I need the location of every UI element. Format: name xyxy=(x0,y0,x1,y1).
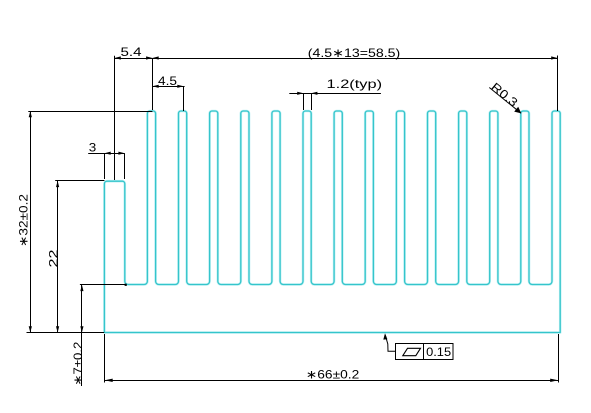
leader R0.3 line xyxy=(489,88,521,114)
dim *66: dimension line xyxy=(105,380,559,382)
arrows dim 1.2 outside xyxy=(297,92,303,95)
flatness parallelogram symbol xyxy=(403,348,421,355)
dim 5.4 and 58.5 chain: dimension line xyxy=(115,58,558,60)
feature control frame box xyxy=(396,344,454,360)
ext line fin6 left xyxy=(303,93,305,110)
svg-text:1.2(typ): 1.2(typ) xyxy=(327,77,383,91)
ext line fin6 right xyxy=(311,93,313,110)
heatsink extrusion profile outline halo xyxy=(104,111,560,333)
ext line top block top xyxy=(55,180,104,182)
arrows dim 22 xyxy=(56,181,59,187)
arrows dim 3 xyxy=(104,152,110,155)
dim 22: dimension line xyxy=(57,181,59,333)
dim 1.2(typ): dimension line xyxy=(289,93,381,95)
ext line left block center xyxy=(114,56,116,180)
ext line bottom shared xyxy=(27,332,105,334)
flatness leader line xyxy=(385,335,395,351)
frame divider xyxy=(423,344,425,360)
heatsink extrusion profile outline xyxy=(104,111,560,333)
svg-text:∗7±0.2: ∗7±0.2 xyxy=(71,341,85,385)
flatness leader arrow xyxy=(383,333,387,339)
arrows dim 7 xyxy=(80,285,83,291)
svg-text:(4.5∗13=58.5): (4.5∗13=58.5) xyxy=(308,46,401,60)
ext line top to fin1 xyxy=(28,111,152,113)
svg-text:5.4: 5.4 xyxy=(121,45,142,59)
arrows dim 5.4 xyxy=(115,56,121,59)
arrows dim 66 xyxy=(105,379,113,382)
ext line right wall xyxy=(557,56,559,112)
svg-text:4.5: 4.5 xyxy=(158,74,177,88)
ext line fin1 center xyxy=(152,58,154,110)
arrows dim 4.5 xyxy=(152,85,158,88)
assoc dot xyxy=(125,284,127,286)
svg-text:R0.3: R0.3 xyxy=(488,80,520,110)
arrows dim 58.5 xyxy=(152,56,158,59)
ext line left xyxy=(104,334,106,383)
svg-text:3: 3 xyxy=(89,140,97,154)
dim 4.5: dimension line xyxy=(152,86,184,88)
dim *7: dimension line extends below xyxy=(81,285,83,386)
leader R0.3 arrow xyxy=(514,107,521,114)
ext line fin2 center xyxy=(183,86,185,111)
svg-text:∗32±0.2: ∗32±0.2 xyxy=(16,194,30,247)
ext line block left xyxy=(104,153,106,179)
svg-text:∗66±0.2: ∗66±0.2 xyxy=(306,367,360,381)
dim *32: dimension line xyxy=(30,111,32,333)
dim 3: dimension line xyxy=(88,153,125,155)
ext line top channel bottom xyxy=(80,284,126,286)
arrows dim 32 xyxy=(29,111,32,117)
ext line right xyxy=(558,334,560,383)
svg-text:0.15: 0.15 xyxy=(426,345,451,359)
svg-text:22: 22 xyxy=(46,249,60,267)
ext line block right xyxy=(124,153,126,179)
